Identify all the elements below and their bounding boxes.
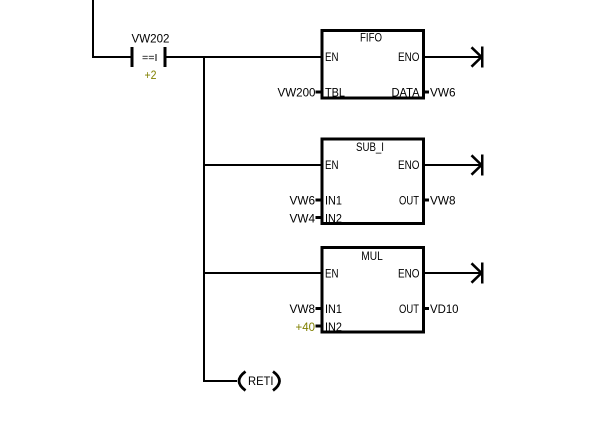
arrow MUL rung continuation	[472, 263, 484, 284]
svg-text:ENO: ENO	[398, 158, 420, 172]
tick IN1 SUB_I	[316, 199, 321, 202]
svg-text:+2: +2	[145, 68, 157, 82]
wire branch to RETI coil	[203, 380, 237, 382]
wire branch to MUL EN	[203, 272, 322, 274]
svg-text:EN: EN	[325, 266, 339, 280]
arrow SUB_I rung continuation	[472, 155, 484, 176]
wire SUB_I ENO output	[424, 164, 481, 166]
wire rail to contact	[92, 56, 131, 58]
box MUL U3	[322, 248, 424, 333]
box SUB_I U2	[322, 139, 424, 224]
box FIFO U1	[322, 31, 424, 99]
tick OUT MUL	[424, 307, 429, 310]
svg-text:VD10: VD10	[430, 302, 459, 316]
svg-text:FIFO: FIFO	[360, 31, 382, 45]
svg-text:VW8: VW8	[290, 302, 316, 316]
svg-text:ENO: ENO	[398, 266, 420, 280]
svg-text:VW200: VW200	[278, 86, 316, 100]
wire branch to SUB_I EN	[203, 164, 322, 166]
wire FIFO ENO output	[424, 56, 481, 58]
svg-text:EN: EN	[325, 50, 339, 64]
contact VW202 ==I	[131, 47, 167, 67]
svg-text:VW4: VW4	[290, 211, 316, 225]
tick IN1 MUL	[316, 307, 321, 310]
svg-text:VW6: VW6	[290, 194, 316, 208]
svg-text:ENO: ENO	[398, 50, 420, 64]
svg-text:SUB_I: SUB_I	[356, 140, 384, 154]
svg-text:IN2: IN2	[325, 320, 342, 334]
wire contact to FIFO EN	[166, 56, 322, 58]
svg-text:IN2: IN2	[325, 211, 342, 225]
tick DATA output	[424, 91, 429, 94]
wire MUL ENO output	[424, 272, 481, 274]
coil RETI	[239, 372, 280, 391]
svg-text:+40: +40	[296, 320, 316, 334]
arrow FIFO rung continuation	[472, 47, 484, 68]
svg-text:OUT: OUT	[399, 194, 420, 208]
svg-text:TBL: TBL	[325, 86, 345, 100]
tick IN2 SUB_I	[316, 216, 321, 219]
tick IN2 MUL	[316, 325, 321, 328]
tick TBL input	[316, 91, 321, 94]
svg-text:DATA: DATA	[392, 86, 420, 100]
svg-text:RETI: RETI	[248, 374, 274, 388]
svg-text:IN1: IN1	[325, 194, 342, 208]
svg-text:VW202: VW202	[132, 32, 170, 46]
svg-text:==I: ==I	[142, 53, 158, 64]
wire junction vertical drop	[203, 56, 205, 382]
svg-text:VW6: VW6	[430, 86, 456, 100]
svg-text:MUL: MUL	[361, 249, 383, 263]
tick OUT SUB_I	[424, 199, 429, 202]
svg-text:EN: EN	[325, 158, 339, 172]
wire left power rail vertical	[92, 0, 94, 58]
svg-text:IN1: IN1	[325, 302, 342, 316]
svg-text:VW8: VW8	[430, 194, 456, 208]
svg-text:OUT: OUT	[399, 302, 420, 316]
